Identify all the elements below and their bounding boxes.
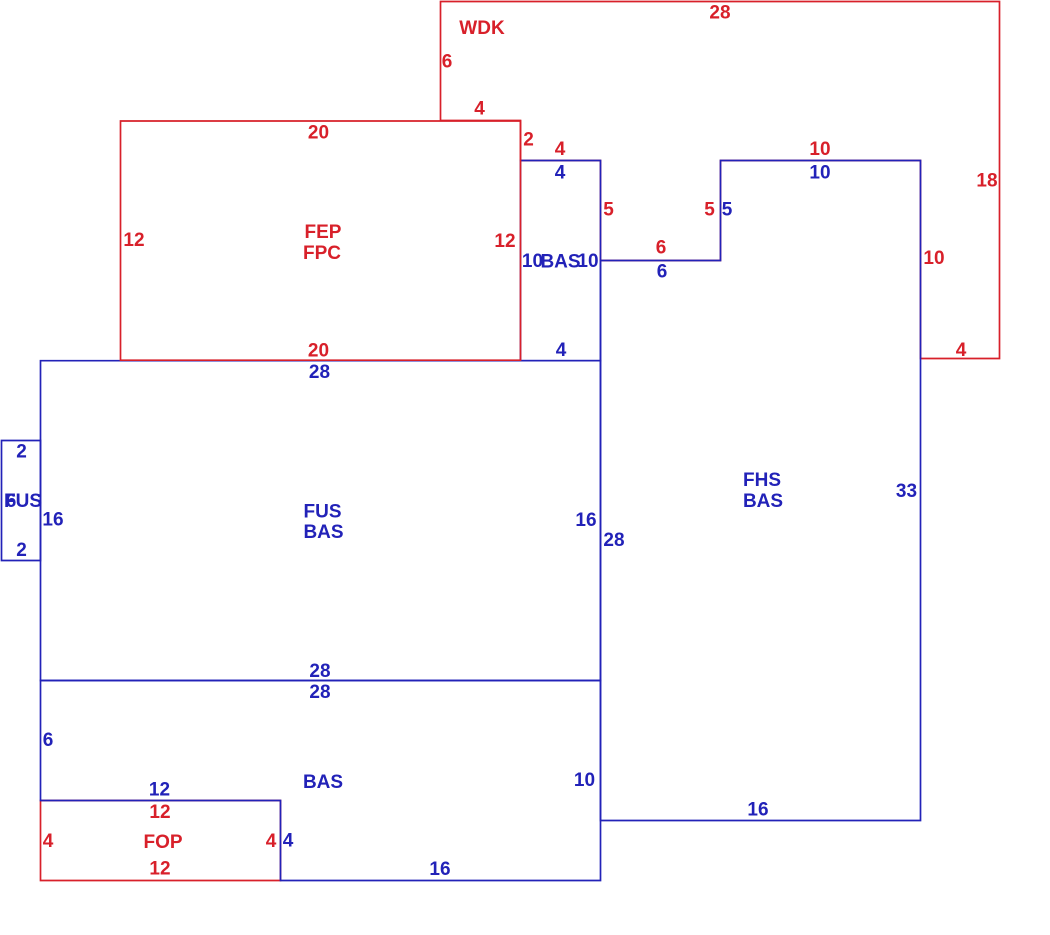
svg-text:10: 10 xyxy=(809,162,830,183)
svg-text:28: 28 xyxy=(309,661,330,682)
svg-text:12: 12 xyxy=(149,802,170,823)
svg-text:4: 4 xyxy=(555,139,566,160)
svg-text:33: 33 xyxy=(896,481,917,502)
svg-text:5: 5 xyxy=(704,200,715,221)
svg-text:6: 6 xyxy=(657,261,668,282)
svg-text:FUS: FUS xyxy=(304,502,342,523)
svg-text:10: 10 xyxy=(577,251,598,272)
svg-text:12: 12 xyxy=(123,230,144,251)
svg-text:BAS: BAS xyxy=(540,252,580,273)
svg-text:4: 4 xyxy=(266,831,277,852)
svg-text:2: 2 xyxy=(16,442,27,463)
svg-text:4: 4 xyxy=(956,340,967,361)
svg-text:4: 4 xyxy=(555,163,566,184)
svg-text:12: 12 xyxy=(149,858,170,879)
svg-text:5: 5 xyxy=(603,200,614,221)
svg-text:16: 16 xyxy=(747,800,768,821)
svg-text:2: 2 xyxy=(523,130,534,151)
svg-text:10: 10 xyxy=(809,139,830,160)
svg-text:FHS: FHS xyxy=(743,470,781,491)
svg-text:4: 4 xyxy=(283,831,294,852)
svg-text:16: 16 xyxy=(429,859,450,880)
svg-text:12: 12 xyxy=(494,231,515,252)
svg-text:18: 18 xyxy=(976,171,997,192)
svg-text:BAS: BAS xyxy=(303,522,343,543)
svg-text:FPC: FPC xyxy=(303,243,341,264)
svg-text:6: 6 xyxy=(43,730,54,751)
svg-text:FEP: FEP xyxy=(305,222,342,243)
svg-text:28: 28 xyxy=(603,530,624,551)
svg-text:BAS: BAS xyxy=(303,772,343,793)
svg-text:4: 4 xyxy=(556,340,567,361)
svg-text:FUS: FUS xyxy=(4,491,42,512)
svg-text:28: 28 xyxy=(709,3,730,24)
svg-text:6: 6 xyxy=(656,237,667,258)
svg-text:2: 2 xyxy=(16,540,27,561)
svg-text:20: 20 xyxy=(308,341,329,362)
svg-text:10: 10 xyxy=(923,248,944,269)
svg-text:BAS: BAS xyxy=(743,491,783,512)
svg-text:20: 20 xyxy=(308,123,329,144)
svg-text:10: 10 xyxy=(574,770,595,791)
svg-text:FOP: FOP xyxy=(143,832,182,853)
svg-text:4: 4 xyxy=(43,831,54,852)
svg-text:WDK: WDK xyxy=(459,18,505,39)
svg-text:28: 28 xyxy=(309,362,330,383)
svg-text:16: 16 xyxy=(575,510,596,531)
svg-text:5: 5 xyxy=(722,200,733,221)
svg-text:12: 12 xyxy=(149,780,170,801)
svg-text:4: 4 xyxy=(474,99,485,120)
svg-text:28: 28 xyxy=(309,682,330,703)
svg-text:6: 6 xyxy=(442,52,453,73)
svg-text:16: 16 xyxy=(42,510,63,531)
